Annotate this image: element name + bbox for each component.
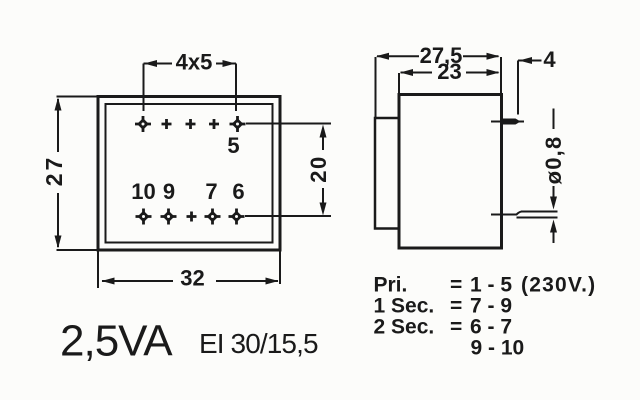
svg-text:Pri.: Pri. <box>374 274 408 297</box>
svg-text:5: 5 <box>227 133 239 158</box>
svg-text:2 Sec.: 2 Sec. <box>374 316 435 339</box>
top edge extension to 27 dimension <box>57 96 99 98</box>
pin row top: pin 1 circled <box>135 116 151 132</box>
arrow right 4x5 <box>223 60 236 67</box>
arrow right 27,5 <box>487 53 500 60</box>
svg-text:10: 10 <box>131 179 155 204</box>
arrow down 27 bottom <box>55 236 62 249</box>
dimension 0,8 lines <box>553 109 555 244</box>
svg-text:32: 32 <box>180 266 204 291</box>
arrow right 23 <box>487 69 500 76</box>
svg-text:1 - 5: 1 - 5 <box>470 274 512 297</box>
left view outer body rectangle <box>98 97 280 251</box>
arrow left 27,5 <box>376 53 389 60</box>
arrow down 20 bottom <box>320 203 327 216</box>
right view body rectangle <box>399 95 502 249</box>
right edge extension down to 32 dimension <box>279 250 281 284</box>
svg-text:7: 7 <box>205 179 217 204</box>
extension line 27,5 left <box>375 57 377 117</box>
svg-text:2,5VA: 2,5VA <box>60 317 173 366</box>
pin top + a <box>162 119 172 129</box>
top pin body <box>503 119 521 125</box>
arrow left 4 <box>519 57 532 64</box>
svg-text:4x5: 4x5 <box>176 50 213 75</box>
svg-text:9: 9 <box>163 179 175 204</box>
svg-text:1 Sec.: 1 Sec. <box>374 295 435 318</box>
dimension 32 line <box>102 280 278 282</box>
arrow left 4x5 <box>144 60 157 67</box>
pin 10 circled <box>136 209 152 225</box>
pin bottom + <box>187 212 197 222</box>
svg-text:6 - 7: 6 - 7 <box>470 316 512 339</box>
extension line right edge up <box>500 57 502 93</box>
extension line 23 left <box>398 73 400 94</box>
svg-text:(230V.): (230V.) <box>521 274 596 297</box>
wire from pin 5 to 20 dimension <box>246 123 331 125</box>
svg-text:=: = <box>450 295 462 318</box>
top pin wire <box>491 121 524 123</box>
svg-text:EI 30/15,5: EI 30/15,5 <box>199 328 318 359</box>
svg-text:4: 4 <box>543 47 556 72</box>
left edge extension down to 32 dimension <box>97 250 99 288</box>
dimension 23 line <box>401 72 499 74</box>
arrow left 23 <box>400 69 413 76</box>
svg-text:6: 6 <box>232 179 244 204</box>
pin top + c <box>209 119 219 129</box>
arrow up 0,8 bottom <box>550 220 557 233</box>
right view core laminations <box>375 118 399 229</box>
left view inner body rectangle <box>106 104 273 243</box>
dimension 27,5 line <box>377 55 499 57</box>
pin top + b <box>186 119 196 129</box>
svg-text:23: 23 <box>437 59 461 84</box>
svg-text:=: = <box>450 316 462 339</box>
arrow up 20 top <box>320 125 327 138</box>
arrow down 0,8 top <box>550 197 557 210</box>
svg-text:ø0,8: ø0,8 <box>541 136 566 185</box>
dimension 4 lines <box>518 61 542 115</box>
dimension 4x5 line <box>144 64 237 112</box>
pin 6 circled <box>229 209 245 225</box>
svg-text:20: 20 <box>306 155 331 182</box>
pin 7 circled <box>205 209 221 225</box>
pin 9 circled <box>161 209 177 225</box>
arrow left 32 <box>102 278 115 285</box>
dimension 27 line <box>57 99 59 247</box>
wire from pin 6 to 20 dimension <box>245 215 331 217</box>
arrow up 27 top <box>55 98 62 111</box>
svg-text:7 - 9: 7 - 9 <box>470 295 512 318</box>
dimension 20 line <box>322 128 324 212</box>
svg-text:27: 27 <box>41 155 67 187</box>
svg-text:=: = <box>450 274 462 297</box>
arrow right 32 <box>266 278 279 285</box>
pin 5 circled <box>230 116 246 132</box>
bottom edge extension to 27 dimension <box>57 249 99 251</box>
bottom pin wire <box>491 212 558 218</box>
svg-text:9 - 10: 9 - 10 <box>471 337 525 360</box>
